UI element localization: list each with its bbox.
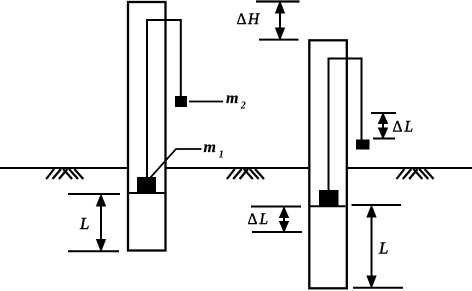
svg-text:L: L [79, 214, 89, 233]
svg-text:ΔH: ΔH [237, 11, 260, 28]
svg-text:m: m [204, 139, 216, 156]
svg-text:2: 2 [240, 101, 246, 112]
svg-text:L: L [378, 239, 388, 258]
svg-text:1: 1 [219, 150, 224, 161]
svg-text:m: m [226, 90, 238, 107]
